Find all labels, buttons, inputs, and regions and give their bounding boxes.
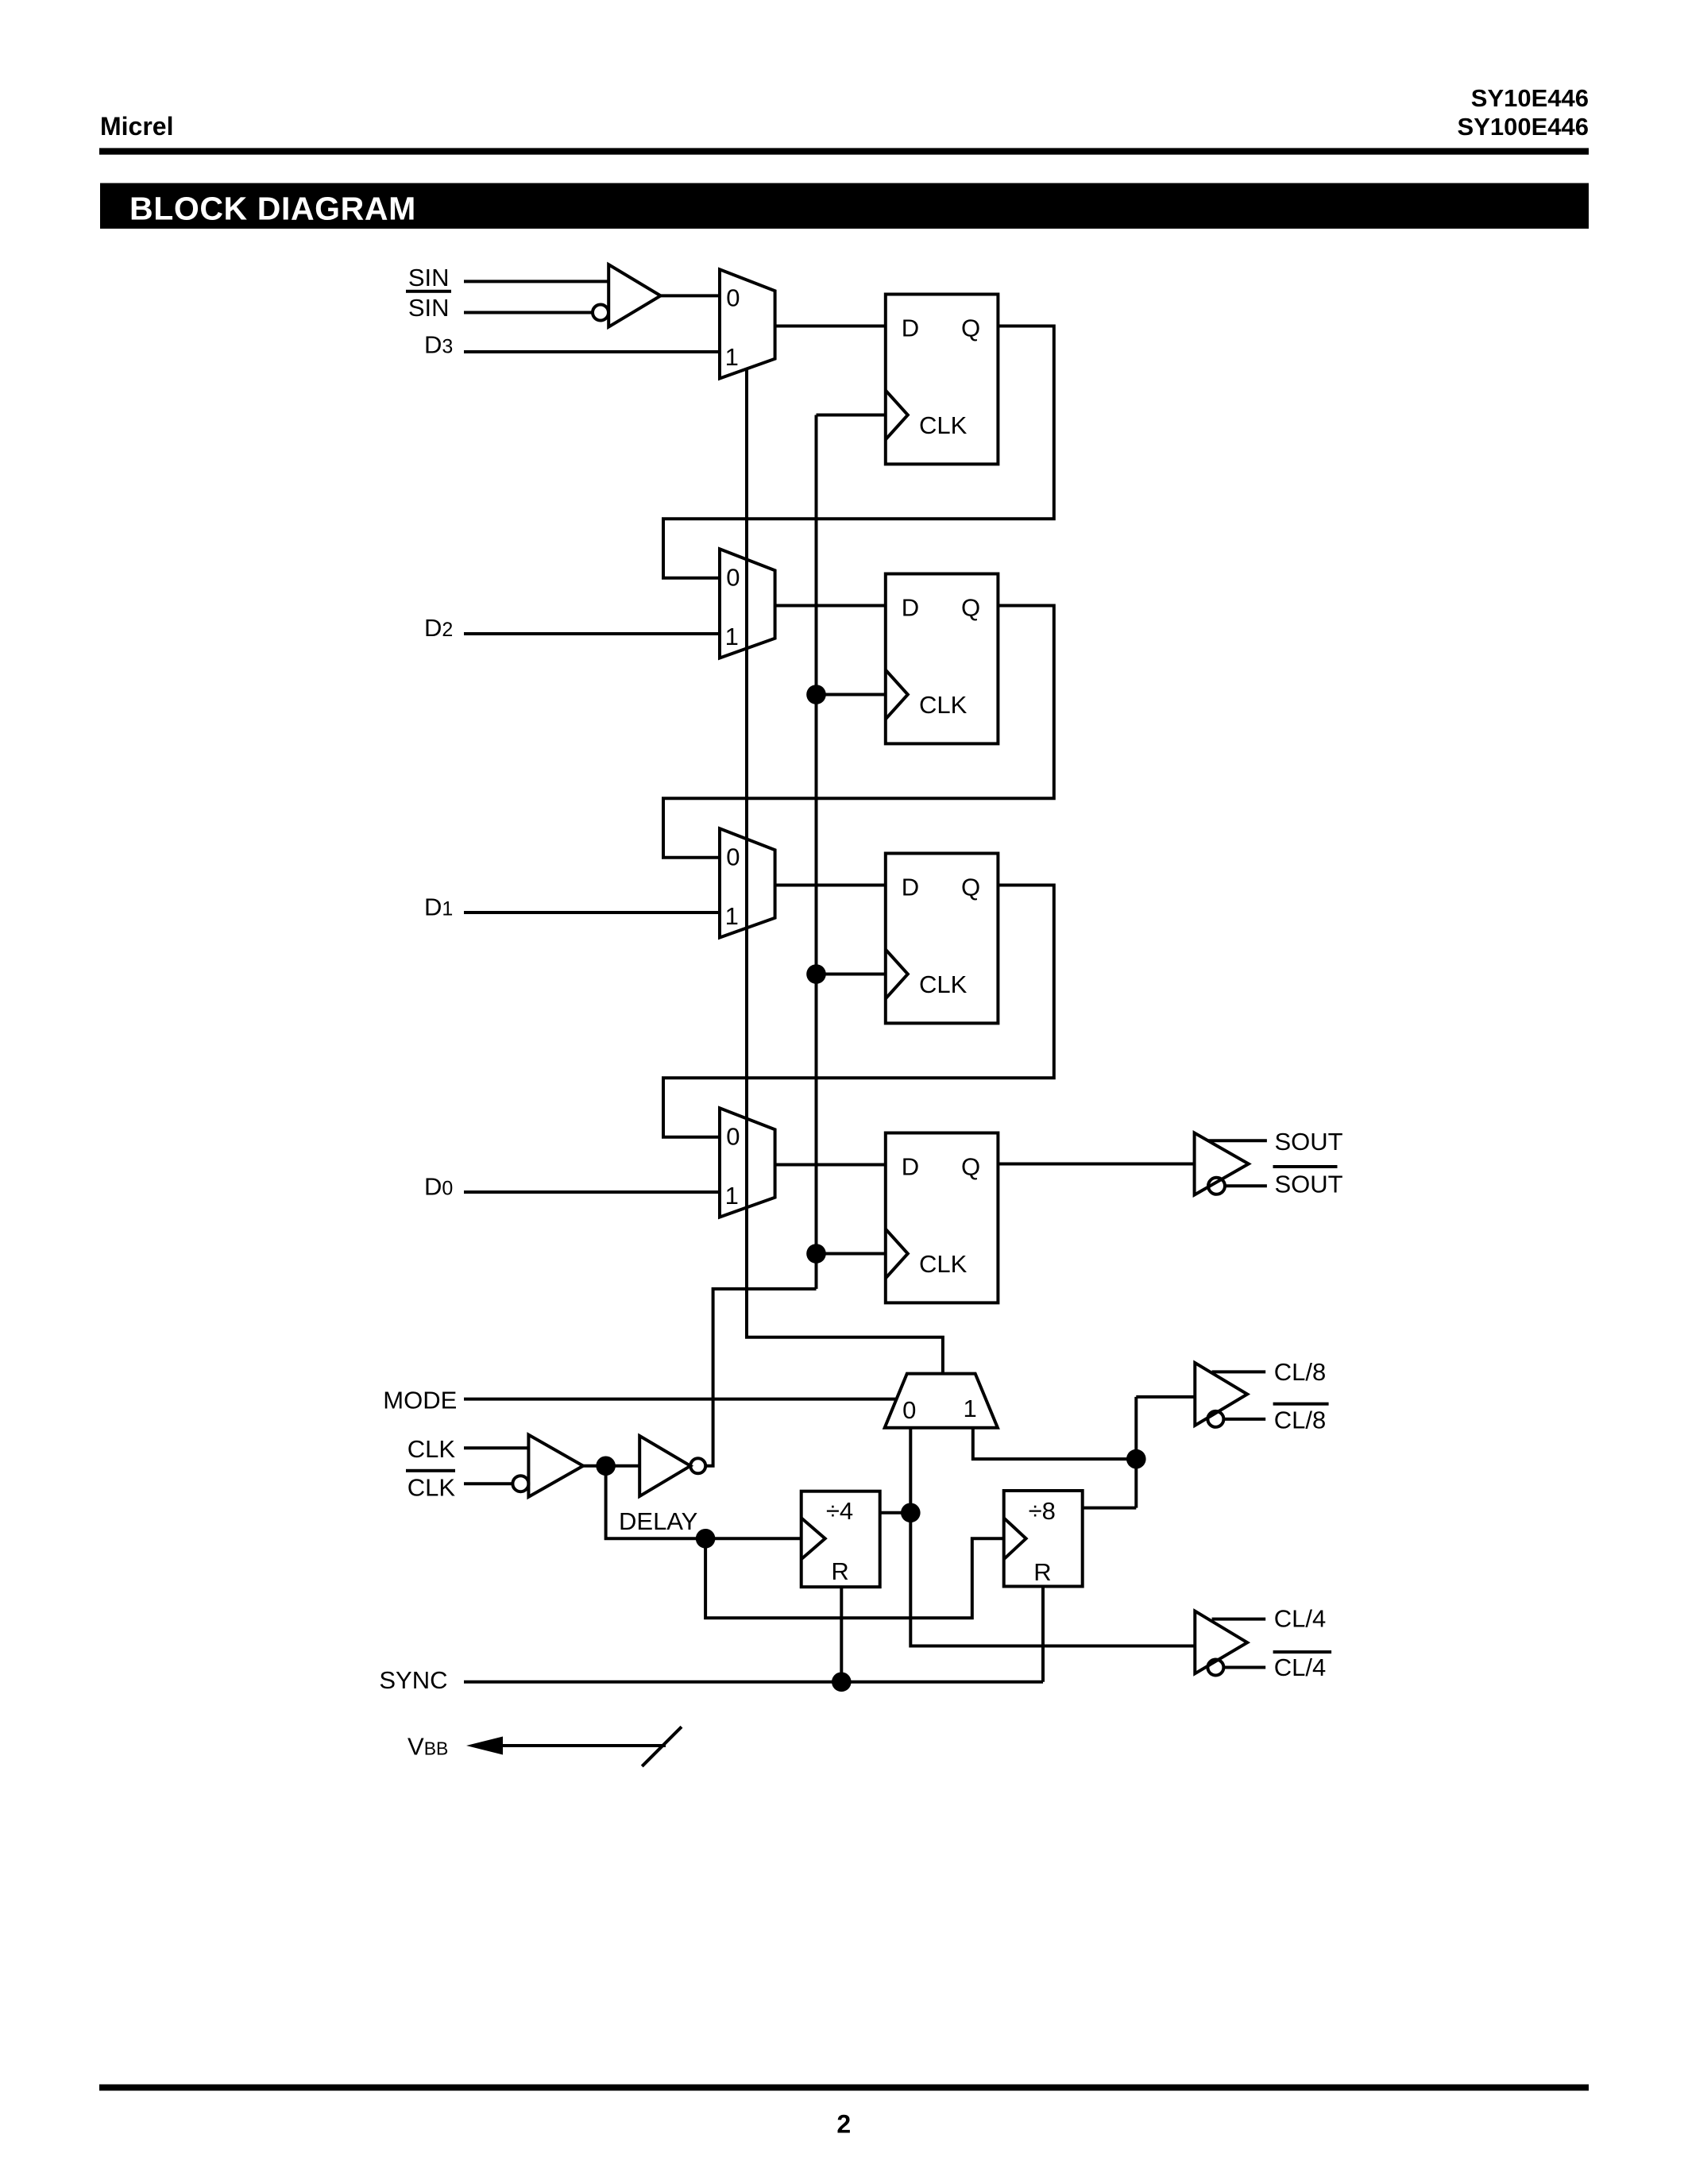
wire mux M2 output to FF2 D — [775, 604, 886, 608]
svg-text:D: D — [902, 314, 919, 342]
wire FF3 Q feedback to mux M4 pin 0 — [663, 886, 1054, 1137]
footer rule — [99, 2085, 1589, 2091]
svg-text:1: 1 — [725, 1182, 739, 1210]
flip-flop FF2 — [886, 574, 999, 744]
wire D3 input to mux M1 pin 1 — [464, 350, 720, 353]
wire DELAY net to divider clocks — [606, 1466, 802, 1539]
svg-text:Q: Q — [961, 314, 980, 342]
mux M5 clock select mux — [885, 1374, 998, 1428]
label CLK-bar (overline) — [406, 1469, 455, 1502]
svg-text:MODE: MODE — [383, 1386, 457, 1414]
svg-text:D: D — [902, 1153, 919, 1181]
wire FF2 Q feedback to mux M3 pin 0 — [663, 606, 1054, 858]
wire CL/4 complement output — [1224, 1666, 1265, 1669]
wire CL/8 true output — [1212, 1370, 1266, 1373]
svg-text:CLK: CLK — [408, 1435, 456, 1463]
svg-text:D3: D3 — [424, 331, 453, 359]
buffer U7 SOUT differential output — [1195, 1133, 1249, 1195]
svg-text:VBB: VBB — [408, 1733, 448, 1761]
wire DELAY branch to divider D8 clock — [705, 1538, 1004, 1618]
wire U9 output up to clock chain — [705, 1289, 816, 1466]
VBB reference arrow with slash — [466, 1727, 682, 1766]
svg-text:CL/4: CL/4 — [1274, 1605, 1326, 1633]
wire CLK input — [464, 1446, 528, 1449]
wire clock stub to FF1 CLK — [817, 414, 886, 417]
wire FF4 Q to output buffer — [998, 1163, 1194, 1166]
svg-text:R: R — [1033, 1558, 1051, 1586]
svg-text:Q: Q — [961, 594, 980, 622]
wire D1 input to mux M3 pin 1 — [464, 911, 720, 914]
wire divider D4 output to mux M5 pin 0 and CL/4 buffer — [880, 1511, 911, 1515]
svg-text:SIN: SIN — [408, 294, 450, 322]
label SIN-bar (overline) — [406, 290, 451, 322]
svg-text:CLK: CLK — [919, 1250, 968, 1278]
junction clock chain at FF3 — [806, 964, 826, 984]
junction DELAY branch — [696, 1529, 716, 1549]
label SOUT-bar (overline) — [1273, 1165, 1343, 1198]
svg-text:BLOCK DIAGRAM: BLOCK DIAGRAM — [129, 190, 416, 226]
wire clock stub to FF4 CLK — [817, 1252, 886, 1256]
wire SIN-bar input — [464, 311, 593, 314]
svg-text:D: D — [902, 594, 919, 622]
wire SOUT true output — [1208, 1139, 1267, 1142]
wire divider D4 reset pin — [840, 1587, 843, 1682]
BLOCK DIAGRAM banner — [100, 183, 1589, 229]
inverter U9 — [639, 1436, 705, 1496]
svg-text:SOUT: SOUT — [1275, 1171, 1343, 1198]
wire D2 input to mux M2 pin 1 — [464, 632, 720, 635]
wire mux M3 output to FF3 D — [775, 884, 886, 887]
buffer U11 CL/4 differential output — [1195, 1611, 1247, 1676]
mux M1 (2:1 multiplexer, stage 1) — [720, 269, 775, 378]
wire U1 output to mux M1 input 0 — [661, 294, 720, 297]
svg-text:CL/8: CL/8 — [1274, 1406, 1326, 1434]
svg-text:D2: D2 — [424, 614, 453, 642]
svg-text:D0: D0 — [424, 1173, 453, 1201]
svg-text:0: 0 — [902, 1396, 916, 1424]
wire divider D8 output to mux M5 pin 1 and CL/8 buffer — [1083, 1507, 1137, 1510]
svg-text:1: 1 — [963, 1395, 976, 1422]
wire D0 input to mux M4 pin 1 — [464, 1190, 720, 1194]
divider D4 (divide-by-4) — [802, 1491, 880, 1588]
buffer U10 CL/8 differential output — [1195, 1363, 1247, 1427]
svg-text:SIN: SIN — [408, 264, 450, 291]
header rule — [99, 148, 1589, 154]
svg-text:D: D — [902, 874, 919, 901]
wire clock stub to FF3 CLK — [817, 973, 886, 976]
mux M3 (2:1 multiplexer, stage 3) — [720, 828, 775, 937]
svg-text:SY10E446: SY10E446 — [1471, 84, 1589, 112]
svg-text:CLK: CLK — [408, 1474, 456, 1502]
divider D8 (divide-by-8) — [1004, 1491, 1083, 1587]
wire SYNC input to divider resets — [464, 1680, 1043, 1684]
svg-text:CL/4: CL/4 — [1274, 1653, 1326, 1681]
svg-text:D1: D1 — [424, 893, 453, 921]
svg-text:SOUT: SOUT — [1275, 1128, 1343, 1156]
wire clock stub to FF2 CLK — [817, 693, 886, 696]
label CL/4-bar (overline) — [1273, 1650, 1332, 1681]
wire FF1 Q feedback to mux M2 pin 0 — [663, 326, 1054, 578]
flip-flop FF1 — [886, 295, 999, 465]
junction clock chain at FF2 — [806, 685, 826, 704]
svg-text:0: 0 — [726, 1123, 740, 1151]
wire mux M1 output to FF1 D — [775, 325, 886, 328]
wire mux select chain MODE net — [747, 368, 943, 1373]
junction divider D4 output — [901, 1503, 921, 1523]
wire SIN input — [464, 280, 608, 283]
svg-text:CLK: CLK — [919, 691, 968, 719]
wire CL/4 true output — [1212, 1618, 1266, 1621]
svg-text:CLK: CLK — [919, 411, 968, 439]
svg-text:DELAY: DELAY — [619, 1507, 697, 1535]
label CL/8-bar (overline) — [1273, 1403, 1329, 1434]
buffer U8 CLK differential input buffer — [512, 1435, 583, 1497]
svg-text:0: 0 — [726, 843, 740, 871]
svg-text:CLK: CLK — [919, 970, 968, 998]
svg-text:÷4: ÷4 — [826, 1497, 853, 1525]
junction divider D8 output branch — [1126, 1449, 1146, 1469]
svg-text:1: 1 — [725, 902, 739, 930]
svg-text:0: 0 — [726, 564, 740, 592]
buffer U1 differential input buffer — [593, 264, 661, 327]
wire clock distribution chain (vertical) — [815, 415, 818, 1289]
mux M4 (2:1 multiplexer, stage 4) — [720, 1108, 775, 1217]
junction clock chain at FF4 — [806, 1244, 826, 1264]
svg-text:CL/8: CL/8 — [1274, 1358, 1326, 1386]
svg-text:Q: Q — [961, 874, 980, 901]
svg-text:0: 0 — [726, 284, 740, 312]
svg-text:÷8: ÷8 — [1029, 1497, 1056, 1525]
flip-flop FF4 — [886, 1133, 999, 1303]
flip-flop FF3 — [886, 854, 999, 1024]
junction SYNC at divider D4 reset — [832, 1673, 852, 1692]
wire mux M4 output to FF4 D — [775, 1163, 886, 1167]
svg-text:SYNC: SYNC — [379, 1666, 447, 1694]
wire MODE input to mux M5 select — [464, 1398, 897, 1401]
svg-text:1: 1 — [725, 343, 739, 371]
svg-text:2: 2 — [836, 2110, 851, 2139]
wire CL/8 complement output — [1224, 1418, 1265, 1421]
junction CLK buffer output — [596, 1457, 616, 1476]
wire divider D8 reset pin — [1041, 1587, 1045, 1682]
svg-text:R: R — [831, 1557, 848, 1585]
svg-text:1: 1 — [725, 623, 739, 650]
svg-text:Micrel: Micrel — [100, 112, 173, 141]
mux M2 (2:1 multiplexer, stage 2) — [720, 549, 775, 658]
wire CLK-bar input — [464, 1482, 512, 1485]
svg-text:Q: Q — [961, 1153, 980, 1181]
wire U8 output to inverter U9 — [583, 1464, 639, 1468]
wire SOUT complement output — [1225, 1184, 1267, 1187]
svg-text:SY100E446: SY100E446 — [1458, 113, 1589, 141]
